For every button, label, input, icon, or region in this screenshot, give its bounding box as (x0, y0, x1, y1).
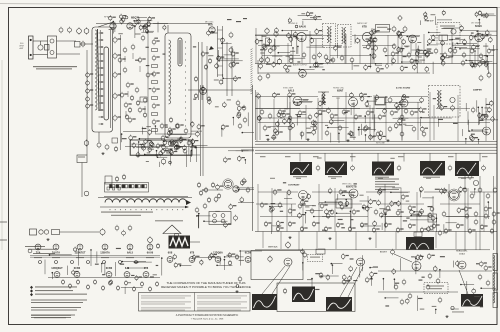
ground (328, 237, 331, 240)
wire video det 3 (158, 162, 160, 167)
sine photo 4 (black) (461, 294, 483, 307)
ground (266, 138, 269, 141)
slug bar strip B (178, 38, 182, 66)
junction audio right 9 (406, 36, 408, 38)
wire to rf amp 2 (57, 53, 81, 55)
coil L3 (100, 228, 105, 236)
wire sound band extra 4 (478, 33, 492, 35)
wire drop low 11 (455, 232, 457, 250)
value text 28 (266, 135, 269, 136)
wire drop vert 1 (257, 184, 259, 232)
sine trace 4 (463, 296, 483, 306)
attenuator pad (black) (169, 236, 191, 249)
resistor R200 (151, 142, 154, 148)
wire top edge a 2 (298, 15, 313, 17)
capacitor C225 (428, 38, 436, 44)
value label sound band extra 4 (480, 61, 486, 62)
resistor R90 (492, 211, 500, 217)
wire sync band 5 (405, 125, 413, 127)
coil L37 (397, 200, 401, 206)
input coil top (50, 39, 54, 43)
capacitor C117 (276, 226, 283, 232)
wire bottom mid 6 (331, 265, 333, 274)
wire drop sync 9 (385, 96, 387, 140)
junction bottom mid 10 (371, 277, 373, 279)
table text c141 r2 l0 (141, 307, 191, 310)
wire vert bus seg 5 (470, 191, 497, 193)
wire vert band 20 (411, 215, 433, 217)
pin cap 2 (55, 261, 58, 264)
wire ratio sect 1 (375, 64, 382, 66)
coil L34 (326, 58, 334, 64)
wire top edge c 2 (482, 13, 495, 15)
selector dot row (110, 208, 184, 211)
junction sync band extra 6 (471, 129, 473, 131)
capacitor C103 (397, 165, 401, 171)
wire vert bus seg 2 (312, 191, 350, 193)
tuner coil arrow (186, 200, 191, 205)
wire drop vert 3 (286, 192, 288, 232)
wire mixer col c (206, 46, 208, 100)
capacitor C69 (392, 26, 396, 33)
value text 67 (385, 305, 389, 306)
capacitor C104 (448, 165, 452, 171)
wire drop low 6 (355, 232, 357, 251)
coil T2 secondary (344, 28, 346, 44)
capacitor C43 (156, 143, 164, 149)
line matching unit (52, 230, 60, 235)
value label video det 3 (146, 126, 151, 127)
value label top edge c 1 (483, 17, 488, 18)
strip B top wire (167, 25, 169, 33)
capacitor C176 (291, 122, 295, 128)
capacitor C206 (427, 226, 431, 232)
capacitor C159 (370, 30, 378, 36)
junction video det 12 (155, 125, 157, 127)
capacitor C231 (365, 101, 369, 107)
resistor R57 (462, 52, 466, 58)
capacitor C216 (74, 247, 77, 253)
sine photo 3 (black) (326, 297, 352, 311)
resistor R26 (168, 127, 176, 133)
capacitor C192 (167, 130, 171, 136)
pulse row label b 6 (461, 177, 466, 180)
value label osc sect 1 (208, 55, 213, 56)
junction top tuner 5 (143, 25, 145, 27)
junction audio right 20 (460, 30, 462, 32)
wire mixer col b (201, 42, 203, 100)
junction damper sect 1 (478, 139, 480, 141)
capacitor C77 (487, 48, 495, 54)
wire osc ladder feed (212, 32, 218, 34)
resistor R34 (242, 105, 246, 111)
capacitor C152 (294, 31, 298, 37)
osc ladder right (222, 26, 224, 77)
table text c197 r2 l1 (197, 309, 241, 312)
junction bottom mid 7 (320, 275, 322, 277)
wire sound band extra 3 (402, 61, 422, 63)
resistor block B9 (152, 113, 158, 116)
capacitor C29 (126, 82, 134, 88)
wire bottom right 14 (467, 302, 477, 304)
wire ratio sect 6 (376, 63, 383, 65)
junction bottom mid 4 (302, 262, 304, 264)
resistor R175 (484, 265, 492, 271)
strip A tap wire 12 (99, 109, 104, 111)
wire strip top band 2 (134, 20, 152, 22)
label channel selector switch (101, 212, 153, 213)
wire osc sect 1 (222, 42, 232, 44)
capacitor C46 (161, 158, 166, 165)
svg-text:BOOST: BOOST (380, 252, 388, 254)
tuner slider line (100, 206, 188, 208)
resistor R41 (217, 193, 221, 199)
capacitor C149 (235, 254, 239, 260)
junction bottom right 9 (415, 258, 417, 260)
wire sync band 11 (385, 101, 402, 103)
wire video det bus 2 (155, 154, 200, 156)
capacitor C183 (480, 114, 488, 120)
resistor R62 (258, 75, 262, 82)
resistor R19 (123, 67, 127, 73)
module pin 2 (213, 219, 217, 223)
capacitor C146 (394, 284, 398, 290)
wire drop sync 8 (369, 105, 371, 140)
capacitor C81 (451, 105, 455, 112)
tube V18 vert output (450, 191, 459, 200)
value label tube row mid 1 (239, 260, 244, 261)
resistor R191 (379, 130, 383, 136)
resistor R94 (336, 222, 343, 228)
junction tube row mid 8 (224, 259, 226, 261)
bus drop wire 8 (479, 153, 481, 161)
capacitor C130 (493, 187, 497, 193)
switch contact pair 6b (144, 185, 146, 188)
wire video det 2 (121, 134, 123, 142)
value label vert band 7 (312, 205, 316, 206)
ground (46, 238, 49, 241)
wire damper sect 2 (467, 111, 469, 125)
wire tuner right 5 (197, 215, 211, 217)
resistor R49 (331, 57, 335, 63)
capacitor C195 (214, 196, 218, 202)
capacitor C143 (391, 249, 395, 255)
wire bottom mid 7 (321, 275, 339, 277)
wire stage bus seg 3 (430, 35, 497, 37)
value label sound sect 4 (262, 36, 267, 37)
wire below strip B 2 (158, 156, 168, 158)
capacitor C67 (324, 54, 328, 60)
coil L27 (410, 209, 414, 215)
resistor R33 (207, 96, 211, 102)
junction sync band extra 4 (468, 130, 470, 132)
junction keyline interior 2 (138, 141, 140, 143)
osc ladder left (217, 26, 219, 77)
capacitor C15 (152, 71, 160, 77)
capacitor C178 (375, 94, 379, 100)
label alternate tuner note 2 (36, 68, 72, 69)
resistor R85 (374, 209, 378, 215)
wire top tuner 3 (112, 22, 114, 34)
resistor R162 (378, 188, 386, 194)
pulse row label 4 (350, 156, 356, 157)
capacitor C21 (174, 141, 178, 147)
resistor R166 (273, 189, 277, 195)
coil T4 b (440, 91, 442, 108)
wire drop top 4 (301, 35, 303, 64)
wire sync band extra 1 (277, 119, 279, 134)
wire sync bus2 seg 4 (436, 108, 470, 110)
coil L35 (287, 117, 291, 123)
capacitor C36 (130, 95, 134, 101)
resistor block B7 (152, 97, 158, 100)
waveform photo 5 (black) (455, 161, 479, 176)
svg-text:4.5 MC SOUND: 4.5 MC SOUND (396, 87, 411, 90)
capacitor C199 (383, 208, 391, 214)
coil L5 (310, 37, 314, 43)
capacitor C49 (243, 117, 247, 123)
test point sound (295, 25, 298, 28)
capacitor C110 (340, 204, 348, 210)
resistor R73 (338, 125, 342, 131)
wire sync band 13 (294, 101, 312, 103)
capacitor C246 (485, 13, 488, 19)
value text 39 (341, 227, 345, 228)
resistor R8 (86, 103, 94, 109)
wire mid column 3 (247, 112, 249, 126)
resistor R109 (116, 285, 119, 291)
capacitor C10 (113, 115, 121, 122)
capacitor C89 (410, 110, 418, 116)
width coil box (308, 255, 323, 262)
capacitor C44 (174, 145, 182, 151)
resistor R87 (418, 211, 422, 217)
wire keyline interior 1 (156, 151, 158, 157)
wire vert band 9 (337, 212, 350, 214)
wire audio right 19 (418, 50, 430, 52)
capacitor C102 (351, 165, 355, 171)
resistor R173 (342, 279, 350, 285)
wire sync band 2 (300, 132, 302, 139)
resistor R28 (161, 135, 169, 141)
junction vert band extra 1 (390, 192, 392, 194)
resistor R150 (478, 112, 486, 118)
capacitor C194 (169, 148, 173, 154)
resistor R21 (124, 102, 132, 108)
resistor R186 (372, 29, 380, 35)
wire sync bus3 seg 3 (398, 117, 452, 119)
wire mixer col e (231, 46, 233, 96)
peaking coil box (376, 25, 390, 33)
capacitor C164 (471, 62, 479, 68)
junction sync band 26 (365, 134, 367, 136)
wire drop sync 4 (305, 105, 307, 140)
resistor R72 (313, 125, 317, 131)
wire right col c (493, 176, 495, 250)
junction sync band 7 (364, 115, 366, 117)
wire vert sound (257, 60, 259, 74)
junction sound band extra 10 (309, 66, 311, 68)
tube V8 ratio det 6T8 (362, 32, 371, 41)
capacitor C63 (277, 58, 281, 65)
value text 3 (427, 49, 432, 50)
sound takeoff transformer box (323, 24, 336, 48)
wire col top 4 (371, 28, 373, 64)
coil L40 (192, 254, 199, 260)
capacitor C57 (197, 182, 201, 188)
wire bottom right 8 (416, 296, 418, 311)
junction top tuner 3 (113, 21, 115, 23)
volume pot (451, 29, 456, 34)
wire sync band 20 (330, 133, 332, 143)
value text 36 (338, 219, 343, 220)
capacitor C52 (156, 243, 159, 249)
value label sync band extra 1 (310, 126, 316, 127)
wire below strip B 4 (196, 147, 198, 162)
capacitor C40 (176, 123, 184, 129)
switch contact pair 4b (132, 185, 134, 188)
capacitor C115 (464, 206, 472, 212)
value label ratio sect 2 (354, 65, 360, 66)
junction audio right 18 (451, 39, 453, 41)
balun loop b (44, 230, 48, 234)
wire keyline interior 4 (136, 147, 159, 149)
svg-text:12BH7A: 12BH7A (100, 251, 110, 254)
resistor R129 (481, 34, 489, 40)
junction damper sect 4 (465, 138, 467, 140)
wire top tuner 1 (114, 22, 116, 32)
resistor R43 (246, 187, 250, 193)
bus drop wire 3 (351, 153, 353, 161)
wire balun (40, 41, 42, 45)
resistor R117 (438, 297, 442, 303)
wire vert bus b (202, 85, 204, 176)
resistor R51 (259, 63, 263, 70)
wire sync band extra 3 (485, 111, 490, 113)
wire sound sect 14 (292, 57, 305, 59)
wire vert band extra 1 (391, 191, 408, 193)
value label keyline interior 2 (149, 145, 152, 146)
resistor R35 (237, 111, 241, 117)
capacitor C135 (93, 279, 96, 285)
note line 3 (375, 184, 399, 185)
waveform photo 3 (black) (372, 162, 394, 176)
wire drop low 7 (375, 232, 377, 249)
resistor R163 (457, 207, 465, 213)
value label video det 4 (146, 161, 149, 162)
coil L8 (368, 39, 376, 45)
capacitor C9 (113, 93, 121, 100)
resistor R29 (187, 140, 191, 146)
resistor R102 (470, 193, 474, 199)
capacitor C227 (440, 104, 448, 110)
wire vert band 1 (446, 222, 457, 224)
wire sync band 26 (365, 135, 367, 142)
resistor R118 (228, 260, 232, 266)
value label vert band 5 (305, 206, 309, 207)
pulse row label b 1 (270, 177, 275, 180)
junction vert band 17 (325, 201, 327, 203)
wire osc sect 4 (224, 54, 232, 56)
yoke winding c (493, 293, 498, 308)
wire col mid 9 (485, 98, 487, 141)
tube V15 damper tube (483, 127, 491, 135)
resistor R54 (407, 52, 411, 58)
capacitor C41 (170, 139, 178, 145)
tube V14 sound det (400, 99, 408, 107)
resistor R135 (400, 65, 408, 71)
wire top edge a 1 (302, 21, 304, 25)
wire high line (255, 231, 497, 233)
wire sync band 16 (286, 96, 288, 108)
resistor R69 (400, 114, 404, 120)
strip B bottom wire (177, 138, 179, 146)
wire drop low 2 (280, 232, 282, 250)
resistor R3 (144, 23, 148, 29)
table text c197 r0 l0 (197, 295, 247, 298)
strip A tap arrow 12 (102, 109, 104, 111)
junction sync band 21 (358, 127, 360, 129)
wire vert band 21 (410, 219, 435, 221)
value text 73 (95, 264, 99, 265)
wire tuner right 4 (203, 189, 223, 191)
resistor R174 (348, 275, 352, 281)
wire horiz y90 (188, 89, 252, 91)
wire keyline interior 3 (175, 145, 187, 147)
wire audio right 16 (474, 51, 476, 66)
waveform trace 3 (374, 164, 391, 174)
capacitor C80 (266, 73, 270, 79)
switch contact pair 1b (112, 185, 114, 188)
strip A top wire (98, 22, 113, 27)
wire audio right 15 (487, 65, 489, 74)
resistor R48 (318, 52, 322, 58)
wire damper sect 5 (480, 119, 498, 121)
tube V22 heater row 12BH7A (102, 244, 108, 250)
resistor R20 (135, 87, 139, 93)
vm pin 2 (345, 202, 349, 206)
discrim trimmer (450, 97, 455, 102)
capacitor C140 (268, 256, 272, 263)
junction vert band extra 7 (436, 217, 438, 219)
junction sound sect 12 (282, 30, 284, 32)
value label vert band 3 (277, 226, 281, 227)
paragraph line 7 (31, 315, 75, 316)
value label tube row mid 2 (226, 255, 231, 256)
wire heater extra 4 (51, 273, 53, 279)
resistor R121 (289, 58, 293, 64)
capacitor C51 (115, 176, 119, 182)
capacitor C17 (152, 103, 160, 109)
pin cap 6 (119, 261, 122, 264)
wire vert band extra 2 (306, 210, 323, 212)
value text 54 (149, 88, 152, 89)
wire stage bus3 seg 3 (388, 55, 430, 57)
value label sync band extra 2 (325, 125, 328, 126)
horiz hold control box (424, 283, 448, 294)
strip A tap wire 4 (99, 53, 104, 55)
resistor R187 (398, 33, 402, 39)
resistor R196 (287, 189, 291, 195)
junction sound sect 11 (315, 63, 317, 65)
capacitor C7 (113, 53, 121, 60)
capacitor C196 (224, 222, 232, 228)
switch contact pair 5a (135, 185, 137, 188)
value text 57 (139, 144, 142, 145)
note bullet 2 (30, 289, 33, 292)
wire bottom mid 10 (371, 278, 373, 286)
resistor R199 (148, 147, 151, 153)
